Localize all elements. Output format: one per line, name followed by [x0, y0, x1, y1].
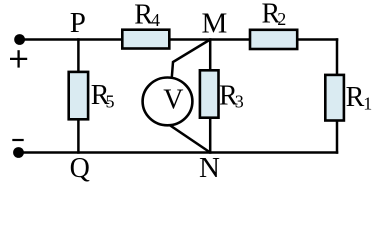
wire voltmeter top lead M to circle — [172, 40, 210, 78]
plus sign — [10, 50, 27, 67]
svg-text:V: V — [163, 84, 183, 115]
resistor R3 — [200, 70, 219, 117]
wire right branch down to R1 — [336, 38, 339, 74]
svg-text:M: M — [202, 8, 228, 40]
svg-text:N: N — [199, 152, 220, 184]
wire node P down to R5 — [77, 38, 80, 71]
voltmeter U1 circle — [143, 78, 193, 126]
wire R3 to bottom rail at N — [209, 118, 212, 154]
svg-text:P: P — [70, 7, 86, 39]
resistor R1 — [325, 75, 344, 121]
wire node M down to R3 — [209, 38, 212, 70]
wire voltmeter bottom lead circle to N — [170, 125, 210, 152]
wire R1 to bottom-right corner — [336, 121, 339, 154]
resistor R4 — [122, 30, 169, 49]
wire R5 to bottom rail at Q — [77, 120, 80, 154]
wire bottom rail Q-N-corner — [19, 151, 339, 154]
resistor R2 — [250, 30, 297, 49]
wire top rail P-M-corner — [20, 38, 123, 41]
terminal dot - (bottom left) — [13, 147, 24, 158]
resistor R5 — [69, 72, 88, 119]
minus sign — [12, 139, 23, 141]
wire between R4 and R2 — [170, 38, 251, 41]
terminal dot + (top left) — [14, 34, 25, 45]
wire R2 to top-right corner — [298, 38, 339, 41]
svg-text:Q: Q — [70, 153, 90, 184]
